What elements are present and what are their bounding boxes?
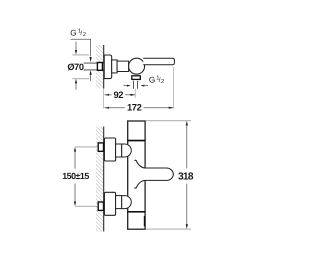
wire: flange bottom extension xyxy=(72,78,89,80)
dimension 172 xyxy=(104,107,109,109)
thermostat body circle xyxy=(129,58,145,74)
svg-text:318: 318 xyxy=(178,172,194,183)
wire: tail of up arrow xyxy=(90,75,92,81)
wall face line xyxy=(103,45,105,89)
wire: wall extension line down to 172 dim xyxy=(103,89,105,109)
outlet collar xyxy=(132,76,141,80)
top S-union: rounded nose xyxy=(122,144,132,157)
wire: G1/2 leader xyxy=(71,39,91,56)
svg-text:150±15: 150±15 xyxy=(62,171,89,181)
wire: handle tip extension xyxy=(173,67,175,108)
arrow down to pipe xyxy=(90,57,92,62)
svg-text:92: 92 xyxy=(114,89,124,100)
top S-union: nipple xyxy=(98,143,103,151)
lever handle xyxy=(143,58,174,64)
wire: flange top extension xyxy=(72,54,89,56)
wall hatching (top view wall) xyxy=(96,45,103,88)
svg-text:Ø70: Ø70 xyxy=(67,62,83,72)
dimension 92 xyxy=(104,94,109,96)
spout xyxy=(135,160,174,188)
svg-text:G: G xyxy=(149,76,155,85)
dimension 318 xyxy=(146,120,191,122)
supply pipe band clearing hatch xyxy=(96,64,104,70)
adapter block xyxy=(112,60,117,73)
svg-text:G: G xyxy=(70,28,76,37)
dimension 150+-15 xyxy=(75,146,98,148)
top S-union: nut xyxy=(116,144,122,157)
G1/2 nipple square in wall xyxy=(97,63,102,71)
node: outlet centre extension line xyxy=(134,89,136,99)
escutcheon flange (side) xyxy=(104,55,112,79)
svg-text:172: 172 xyxy=(127,102,142,113)
bottom S-union: rounded nose xyxy=(122,196,132,209)
bottom S-union: nipple xyxy=(98,202,103,210)
svg-text:2: 2 xyxy=(161,78,164,85)
top S-union: flange xyxy=(104,138,115,161)
outlet tube xyxy=(134,81,138,89)
connection pipe block xyxy=(117,61,129,71)
wall hatching bottom xyxy=(96,127,103,232)
body cap joint lower (thick) xyxy=(127,211,145,213)
label G1/2 outlet xyxy=(124,85,128,87)
bottom cap right edge detail xyxy=(144,216,146,227)
svg-text:2: 2 xyxy=(83,31,86,38)
dimension O70 xyxy=(75,42,77,51)
body cap joint upper (thick) xyxy=(127,140,145,142)
wall face line bottom xyxy=(103,127,105,232)
supply pipe outlines xyxy=(84,63,104,70)
arrow up below pipe xyxy=(90,70,92,75)
bottom S-union: nut xyxy=(116,196,122,209)
bottom S-union: flange xyxy=(104,192,115,215)
body column xyxy=(128,121,145,229)
